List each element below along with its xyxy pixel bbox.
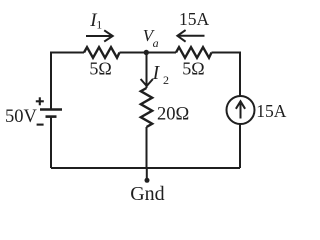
- resistor R2 5ohm: [176, 47, 212, 58]
- svg-text:50V: 50V: [5, 107, 38, 127]
- label I1: [89, 10, 102, 32]
- battery minus sign: [37, 124, 44, 126]
- svg-text:2: 2: [163, 73, 169, 87]
- label I2: [152, 63, 169, 87]
- current arrow 15A (left-pointing): [179, 35, 205, 37]
- wire top-left segment: [51, 53, 84, 109]
- svg-text:Gnd: Gnd: [130, 183, 164, 205]
- wire left-lower segment: [50, 118, 52, 169]
- current arrow I2 head: [141, 79, 153, 86]
- svg-text:1: 1: [96, 18, 102, 32]
- wire top-middle segment: [120, 52, 177, 54]
- svg-text:a: a: [153, 36, 159, 50]
- svg-text:15A: 15A: [179, 9, 210, 29]
- resistor R3 20ohm: [141, 88, 152, 127]
- wire right-lower segment: [239, 124, 241, 168]
- ground node dot: [145, 178, 150, 183]
- node Va dot: [144, 50, 149, 55]
- label node Va: [143, 26, 159, 50]
- svg-text:5Ω: 5Ω: [89, 59, 111, 79]
- current source CS1 circle: [227, 96, 255, 124]
- current source arrow: [240, 104, 242, 119]
- wire top-right segment: [212, 53, 241, 97]
- battery plus sign: [36, 97, 44, 105]
- svg-text:5Ω: 5Ω: [182, 59, 204, 79]
- svg-text:15A: 15A: [256, 101, 287, 121]
- battery V1 plates: [40, 110, 62, 117]
- current arrow I1: [86, 35, 111, 37]
- resistor R1 5ohm: [84, 47, 120, 58]
- wire middle branch lower: [146, 127, 148, 168]
- wire bottom: [51, 167, 240, 169]
- svg-text:20Ω: 20Ω: [157, 105, 189, 125]
- ground stub wire: [146, 168, 148, 179]
- wire middle branch upper: [146, 53, 148, 89]
